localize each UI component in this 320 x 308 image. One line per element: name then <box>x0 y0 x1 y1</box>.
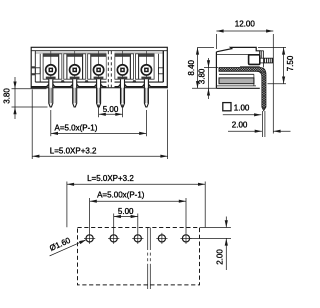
svg-text:5.00: 5.00 <box>118 207 134 216</box>
svg-text:5.00: 5.00 <box>103 105 119 114</box>
svg-text:A=5.00x(P-1): A=5.00x(P-1) <box>97 191 145 200</box>
svg-text:3.80: 3.80 <box>2 88 11 104</box>
svg-text:12.00: 12.00 <box>235 20 256 29</box>
svg-text:3.80: 3.80 <box>197 68 206 84</box>
svg-text:L=5.0XP+3.2: L=5.0XP+3.2 <box>50 147 97 156</box>
svg-text:2.00: 2.00 <box>232 121 248 130</box>
svg-text:8.40: 8.40 <box>187 59 196 75</box>
svg-text:7.50: 7.50 <box>286 55 295 71</box>
svg-text:1.00: 1.00 <box>234 104 250 113</box>
svg-text:A=5.0x(P-1): A=5.0x(P-1) <box>55 124 98 133</box>
svg-text:L=5.0XP+3.2: L=5.0XP+3.2 <box>87 174 134 183</box>
svg-text:2.00: 2.00 <box>216 249 225 265</box>
